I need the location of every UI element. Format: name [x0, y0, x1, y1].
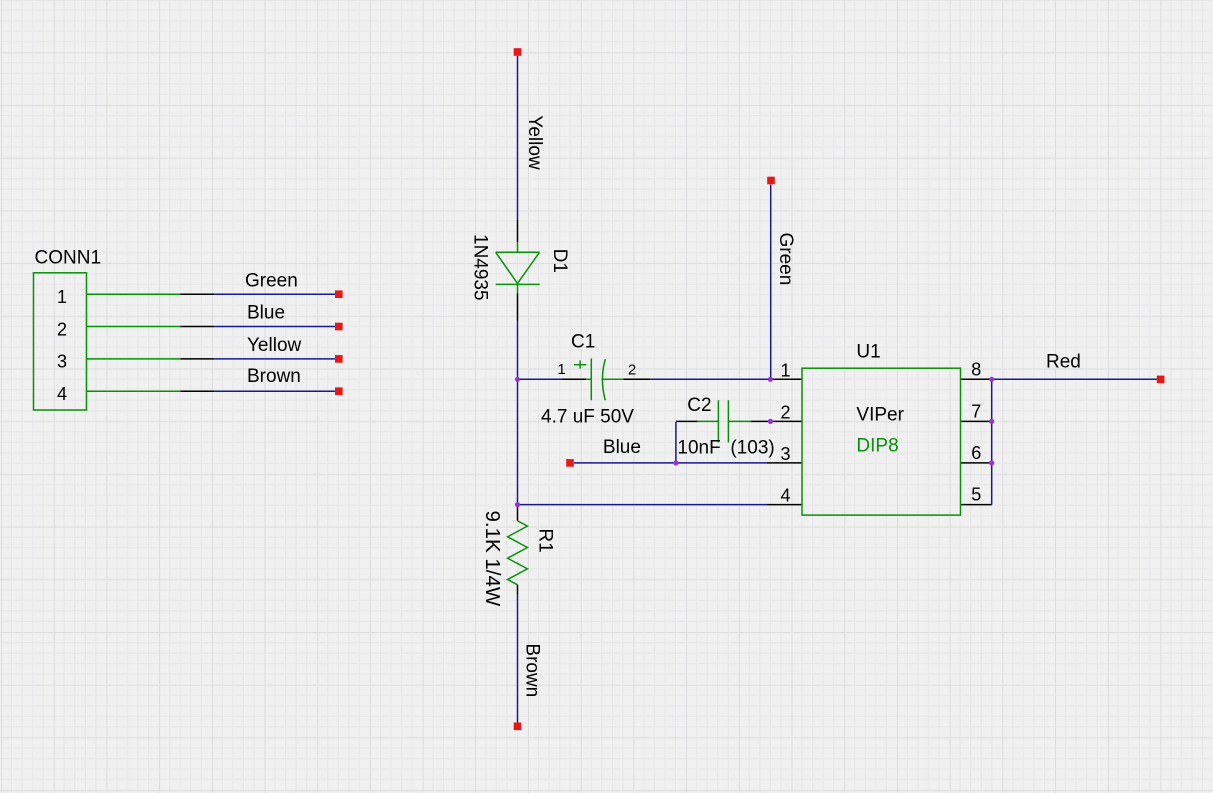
svg-text:(103): (103)	[730, 437, 774, 458]
svg-text:1: 1	[57, 287, 67, 307]
svg-text:2: 2	[780, 402, 790, 422]
svg-text:C2: C2	[687, 395, 711, 416]
svg-text:10nF: 10nF	[677, 437, 720, 458]
svg-text:Yellow: Yellow	[247, 335, 302, 356]
svg-text:Blue: Blue	[603, 437, 641, 458]
svg-text:CONN1: CONN1	[35, 247, 102, 268]
svg-text:6: 6	[971, 443, 981, 463]
svg-text:1: 1	[557, 361, 565, 378]
svg-text:5: 5	[971, 485, 981, 505]
svg-text:3: 3	[780, 444, 790, 464]
svg-text:VIPer: VIPer	[856, 404, 904, 425]
svg-text:9.1K 1/4W: 9.1K 1/4W	[481, 511, 504, 607]
svg-text:Brown: Brown	[522, 643, 543, 697]
svg-text:Green: Green	[245, 271, 298, 292]
svg-text:4: 4	[57, 384, 67, 404]
svg-text:DIP8: DIP8	[856, 436, 898, 457]
svg-text:4: 4	[780, 486, 790, 506]
svg-text:C1: C1	[571, 332, 595, 353]
svg-text:8: 8	[971, 359, 981, 379]
svg-text:2: 2	[628, 361, 636, 378]
svg-text:U1: U1	[856, 342, 880, 363]
svg-text:Green: Green	[775, 233, 796, 286]
svg-text:Blue: Blue	[247, 303, 285, 324]
svg-text:Brown: Brown	[247, 366, 301, 387]
svg-text:R1: R1	[535, 528, 556, 552]
svg-text:3: 3	[57, 352, 67, 372]
svg-text:7: 7	[971, 401, 981, 421]
svg-text:4.7 uF 50V: 4.7 uF 50V	[541, 406, 634, 427]
svg-text:1N4935: 1N4935	[470, 234, 491, 301]
svg-text:D1: D1	[549, 249, 570, 273]
svg-text:Yellow: Yellow	[524, 115, 545, 170]
svg-text:1: 1	[780, 360, 790, 380]
svg-text:2: 2	[57, 319, 67, 339]
svg-text:Red: Red	[1046, 351, 1081, 372]
